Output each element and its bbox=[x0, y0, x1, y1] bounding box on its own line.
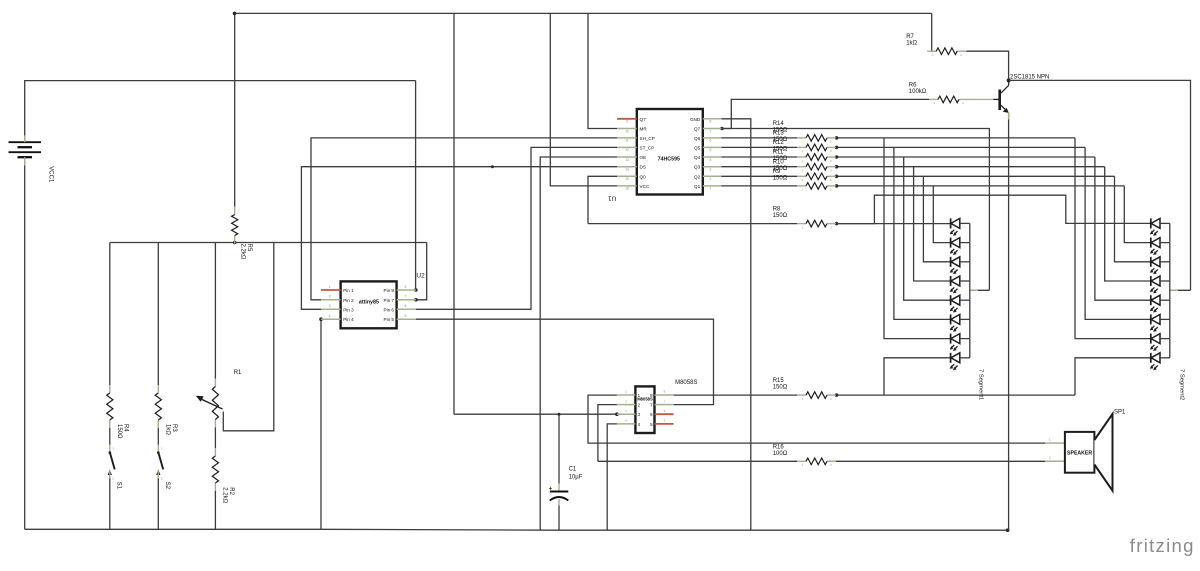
wire R15 output line bbox=[837, 394, 1076, 396]
svg-text:SP1: SP1 bbox=[1114, 410, 1126, 416]
wire collector node to 7segment2 riser bbox=[1009, 80, 1191, 290]
svg-text:Pin 2: Pin 2 bbox=[343, 298, 354, 303]
svg-text:Q5: Q5 bbox=[694, 145, 701, 150]
junction dot attiny Pin7 bbox=[414, 298, 418, 302]
wire power distribution line bbox=[110, 242, 427, 244]
wire M8058S pin8 to R15 bbox=[674, 394, 797, 396]
wire attiny Pin4 to ground rail bbox=[320, 319, 322, 529]
svg-text:8: 8 bbox=[404, 285, 406, 289]
wire Q1 drop to 7segment2 LED2 bbox=[1124, 186, 1151, 243]
svg-text:Q7’: Q7’ bbox=[640, 117, 647, 122]
svg-text:SH_CP: SH_CP bbox=[640, 136, 655, 141]
LED 8 of 7segment1 bbox=[950, 353, 970, 370]
label M8058S bbox=[675, 380, 697, 386]
wire R15 to 7segment2 LED8 bbox=[1075, 358, 1151, 395]
wire 74HC595 DS to attiny Pin3 bbox=[301, 167, 617, 310]
LED 5 of 7segment1 bbox=[950, 295, 970, 312]
svg-text:GND: GND bbox=[690, 117, 701, 122]
svg-text:+: + bbox=[549, 485, 553, 492]
wire distribution down to R3 bbox=[157, 243, 159, 386]
wire Q2 resistor output bus bbox=[837, 175, 1115, 177]
IC U2 attiny85 bbox=[321, 281, 416, 328]
wire Q6 drop to 7segment1 LED7 bbox=[884, 138, 951, 339]
svg-text:attiny85: attiny85 bbox=[359, 299, 379, 305]
label C1 bbox=[569, 466, 583, 480]
LED 3 of 7segment1 bbox=[950, 257, 970, 274]
svg-text:R4: R4 bbox=[122, 424, 128, 432]
wire attiny Pin5 to M8058S pin7 bbox=[416, 319, 714, 404]
LED 1 of 7segment1 bbox=[950, 218, 970, 235]
LED 7 of 7segment2 bbox=[1150, 334, 1170, 351]
svg-text:R3: R3 bbox=[171, 424, 177, 432]
svg-text:15: 15 bbox=[625, 177, 629, 181]
wire Q4 resistor output bus bbox=[837, 156, 1095, 158]
label U1 bbox=[608, 195, 617, 202]
svg-text:M8058S: M8058S bbox=[637, 396, 653, 401]
svg-text:150Ω: 150Ω bbox=[116, 424, 122, 439]
junction dot Q3 resistor output bbox=[835, 165, 839, 169]
wire R8 line from Q0 bbox=[588, 223, 797, 225]
label R7 bbox=[906, 34, 917, 47]
svg-text:U2: U2 bbox=[416, 273, 425, 280]
svg-text:R11: R11 bbox=[773, 150, 784, 156]
svg-text:Pin 5: Pin 5 bbox=[384, 317, 395, 322]
wire 7segment1 common tap bbox=[970, 289, 990, 291]
svg-text:□: □ bbox=[963, 321, 965, 325]
junction dot on DS wire bbox=[491, 165, 494, 168]
svg-text:1kΩ: 1kΩ bbox=[906, 41, 917, 47]
wire distribution down to R4 bbox=[109, 243, 111, 386]
wire Q7 to R6 bbox=[722, 99, 929, 128]
svg-text:74HC595: 74HC595 bbox=[658, 156, 680, 162]
svg-text:150Ω: 150Ω bbox=[773, 175, 788, 181]
svg-text:2SC1815 NPN: 2SC1815 NPN bbox=[1010, 74, 1049, 80]
junction dot Q7 output bbox=[720, 127, 724, 131]
svg-text:MR: MR bbox=[640, 127, 648, 132]
svg-text:Pin 4: Pin 4 bbox=[343, 317, 354, 322]
svg-text:2: 2 bbox=[329, 295, 331, 299]
svg-text:7: 7 bbox=[404, 295, 406, 299]
svg-text:Pin 8: Pin 8 bbox=[384, 288, 395, 293]
svg-text:Q4: Q4 bbox=[694, 155, 701, 160]
svg-text:14: 14 bbox=[625, 168, 629, 172]
svg-text:150Ω: 150Ω bbox=[773, 385, 788, 391]
LED 6 of 7segment1 bbox=[950, 314, 970, 331]
wire VCC rail down to 74HC595 MR pin bbox=[588, 13, 617, 128]
svg-text:VCC1: VCC1 bbox=[47, 166, 53, 183]
svg-text:Pin 6: Pin 6 bbox=[384, 307, 395, 312]
wire 7segment1 common bus bbox=[969, 223, 971, 357]
wire R3 to switch S2 bbox=[157, 428, 159, 445]
resistor R14 bbox=[797, 135, 836, 144]
junction dot C1 top bbox=[558, 413, 561, 416]
label R10 bbox=[773, 159, 788, 172]
label U2 bbox=[416, 273, 425, 280]
label 7 Segment2 bbox=[1179, 369, 1185, 400]
svg-text:Q2: Q2 bbox=[694, 174, 701, 179]
svg-text:SPEAKER: SPEAKER bbox=[1067, 450, 1092, 456]
wire R7 to collector node bbox=[966, 51, 1008, 80]
wire Q1 resistor output bus bbox=[837, 185, 1125, 187]
svg-text:Q6: Q6 bbox=[694, 136, 701, 141]
wire M8058S pin2 down to R16 line bbox=[598, 405, 617, 462]
LED 1 of 7segment2 bbox=[1150, 218, 1170, 235]
svg-text:R10: R10 bbox=[773, 159, 785, 165]
wire distribution down to pot wiper return bbox=[416, 243, 427, 300]
speaker SP1 bbox=[1045, 414, 1112, 491]
wire Q4 drop to 7segment1 LED5 bbox=[904, 157, 951, 300]
svg-text:□: □ bbox=[963, 360, 965, 364]
wire R16 to speaker pin2 bbox=[827, 460, 1045, 462]
wire ground rail left bbox=[25, 528, 321, 530]
label R6 bbox=[909, 82, 927, 95]
wire Q2 drop to 7segment1 LED3 bbox=[923, 176, 950, 261]
junction dot R5 bottom bbox=[233, 241, 237, 245]
svg-text:5: 5 bbox=[404, 314, 406, 318]
junction dot attiny Pin8 bbox=[414, 288, 418, 292]
svg-text:R7: R7 bbox=[906, 34, 914, 40]
wire VCC top rail bbox=[235, 12, 932, 14]
resistor R13 bbox=[797, 144, 836, 153]
switch S2 bbox=[156, 445, 163, 481]
svg-text:12: 12 bbox=[625, 148, 629, 152]
svg-text:9: 9 bbox=[626, 120, 628, 124]
svg-text:100Ω: 100Ω bbox=[773, 451, 788, 457]
transistor Q1 2SC1815 bbox=[968, 80, 1009, 119]
resistor R11 bbox=[797, 163, 836, 172]
svg-text:Q3: Q3 bbox=[694, 165, 701, 170]
junction dot Q4 resistor output bbox=[835, 155, 839, 159]
wire Q6 resistor output bus bbox=[837, 137, 1076, 139]
wire 74HC595 Q2 to resistor bbox=[722, 175, 798, 177]
svg-text:□: □ bbox=[963, 340, 965, 344]
svg-text:13: 13 bbox=[625, 158, 629, 162]
LED 5 of 7segment2 bbox=[1150, 295, 1170, 312]
label S1 bbox=[116, 482, 122, 490]
resistor R4 bbox=[107, 385, 113, 428]
svg-text:□: □ bbox=[1163, 340, 1165, 344]
svg-text:□: □ bbox=[963, 302, 965, 306]
wire 7segment2 common tap bbox=[1170, 289, 1191, 291]
wire 7segment2 common bus bbox=[1169, 223, 1171, 357]
wire R15 to 7segment1 LED8 bbox=[884, 358, 951, 395]
resistor R5 bbox=[232, 207, 238, 244]
svg-text:□: □ bbox=[1163, 321, 1165, 325]
wire junction 80-line to attiny Pin8 bbox=[415, 81, 417, 290]
svg-text:R9: R9 bbox=[773, 169, 781, 175]
svg-text:Pin 3: Pin 3 bbox=[343, 307, 354, 312]
resistor R8 bbox=[797, 220, 836, 229]
wire R8 output to LED1 of 7segment1 bbox=[837, 223, 951, 225]
wire Q3 drop to 7segment2 LED4 bbox=[1105, 167, 1151, 281]
svg-text:1kΩ: 1kΩ bbox=[164, 424, 170, 435]
junction dot Q5 resistor output bbox=[835, 146, 839, 150]
svg-text:□: □ bbox=[1163, 360, 1165, 364]
wire Q5 drop to 7segment2 LED6 bbox=[1085, 147, 1151, 319]
wire 74HC595 GND down to rail bbox=[722, 119, 751, 530]
resistor R2 bbox=[212, 448, 218, 491]
svg-text:□: □ bbox=[1163, 244, 1165, 248]
capacitor C1 bbox=[549, 484, 569, 506]
svg-text:fritzing: fritzing bbox=[1130, 535, 1195, 556]
label R3 bbox=[164, 424, 177, 435]
svg-text:R8: R8 bbox=[773, 207, 781, 213]
svg-text:4: 4 bbox=[329, 314, 331, 318]
svg-text:Q7: Q7 bbox=[694, 127, 701, 132]
label 7 Segment1 bbox=[978, 369, 984, 400]
svg-text:3: 3 bbox=[329, 304, 331, 308]
svg-text:S2: S2 bbox=[164, 482, 170, 490]
wire C1 top to 414-line bbox=[558, 414, 560, 483]
svg-text:2.2kΩ: 2.2kΩ bbox=[221, 487, 227, 503]
IC M8058S bbox=[617, 386, 674, 433]
junction dot M8058S pin3 bbox=[615, 412, 619, 416]
svg-text:R6: R6 bbox=[909, 82, 917, 88]
svg-text:VCC: VCC bbox=[640, 184, 650, 189]
resistor R7 bbox=[927, 48, 966, 57]
wire Q3 drop to 7segment1 LED4 bbox=[914, 167, 951, 281]
svg-text:7 Segment2: 7 Segment2 bbox=[1179, 369, 1185, 400]
svg-text:ST_CP: ST_CP bbox=[640, 145, 655, 150]
wire VCC rail down to 74HC595 VCC pin bbox=[550, 13, 617, 186]
svg-text:□: □ bbox=[1163, 283, 1165, 287]
svg-text:□: □ bbox=[963, 283, 965, 287]
wire Q5 resistor output bus bbox=[837, 146, 1086, 148]
svg-text:10: 10 bbox=[625, 129, 629, 133]
wire M8058S pin1 to speaker pin1 bbox=[588, 395, 1045, 443]
wire distribution down to pot R1 bbox=[214, 243, 216, 379]
LED 4 of 7segment2 bbox=[1150, 276, 1170, 293]
svg-text:R5: R5 bbox=[246, 244, 252, 252]
wire VCC rail down to R5 bbox=[234, 13, 236, 206]
svg-text:R2: R2 bbox=[228, 487, 234, 495]
resistor R15 bbox=[797, 392, 836, 401]
label R2 bbox=[221, 487, 234, 503]
svg-text:2.2kΩ: 2.2kΩ bbox=[239, 244, 245, 260]
resistor R12 bbox=[797, 154, 836, 163]
svg-text:Q1: Q1 bbox=[694, 184, 701, 189]
junction dot Q1 resistor output bbox=[835, 184, 839, 188]
wire R4 to switch S1 bbox=[109, 428, 111, 445]
label S2 bbox=[164, 482, 170, 490]
svg-text:150Ω: 150Ω bbox=[773, 213, 788, 219]
LED 6 of 7segment2 bbox=[1150, 314, 1170, 331]
wire pot wiper to riser bbox=[223, 243, 273, 431]
wire emitter down to ground rail bbox=[1008, 114, 1010, 531]
junction dot emitter at ground rail bbox=[1006, 528, 1010, 532]
junction dot top rail left end bbox=[233, 12, 237, 16]
svg-text:U1: U1 bbox=[608, 195, 617, 202]
LED 8 of 7segment2 bbox=[1150, 353, 1170, 370]
wire Q3 resistor output bus bbox=[837, 166, 1105, 168]
wire Q4 drop to 7segment2 LED5 bbox=[1095, 157, 1151, 300]
svg-text:7: 7 bbox=[710, 129, 712, 133]
label R8 bbox=[773, 207, 788, 220]
wire S1 to ground rail bbox=[109, 479, 111, 530]
wire pot R1 to R2 bbox=[214, 428, 216, 449]
svg-text:Pin 1: Pin 1 bbox=[343, 288, 354, 293]
wire R7 from VCC rail bbox=[932, 13, 937, 51]
label R4 bbox=[116, 424, 129, 439]
wire C1 bottom to ground rail bbox=[558, 506, 560, 531]
svg-text:1: 1 bbox=[329, 285, 331, 289]
svg-text:M8058S: M8058S bbox=[675, 380, 697, 386]
LED 3 of 7segment2 bbox=[1150, 257, 1170, 274]
junction dot Q6 resistor output bbox=[835, 136, 839, 140]
svg-text:4: 4 bbox=[710, 158, 712, 162]
svg-text:S1: S1 bbox=[116, 482, 122, 490]
wire M8058S pin4 to ground rail bbox=[607, 424, 617, 530]
LED 2 of 7segment1 bbox=[950, 238, 970, 255]
svg-text:6: 6 bbox=[404, 304, 406, 308]
label R11 bbox=[773, 150, 788, 163]
svg-text:16: 16 bbox=[625, 187, 629, 191]
label R12 bbox=[773, 140, 788, 153]
IC U1 74HC595 shift register bbox=[617, 109, 722, 195]
svg-text:R13: R13 bbox=[773, 130, 785, 136]
wire Q2 drop to 7segment2 LED3 bbox=[1115, 176, 1151, 261]
label R14 bbox=[773, 121, 788, 133]
svg-text:6: 6 bbox=[710, 139, 712, 143]
svg-text:7 Segment1: 7 Segment1 bbox=[978, 369, 984, 400]
svg-text:□: □ bbox=[963, 264, 965, 268]
resistor R10 bbox=[797, 173, 836, 182]
leg 7segment2 common bbox=[1170, 289, 1178, 291]
svg-text:11: 11 bbox=[625, 139, 629, 143]
svg-text:10µF: 10µF bbox=[569, 475, 583, 481]
label R13 bbox=[773, 130, 788, 143]
fritzing logo bbox=[1130, 535, 1195, 556]
svg-text:R14: R14 bbox=[773, 121, 785, 127]
svg-text:□: □ bbox=[1163, 225, 1165, 229]
label R5 bbox=[239, 244, 252, 260]
svg-text:□: □ bbox=[1163, 264, 1165, 268]
wire Q5 drop to 7segment1 LED6 bbox=[894, 147, 951, 319]
junction dot R15 output bbox=[835, 393, 839, 397]
junction dot Q2 resistor output bbox=[835, 175, 839, 179]
wire Q6 drop to 7segment2 LED7 bbox=[1075, 138, 1151, 339]
wire 74HC595 SH_CP to attiny Pin2 bbox=[311, 138, 617, 300]
svg-text:R16: R16 bbox=[773, 444, 785, 450]
wire S2 to ground rail bbox=[157, 479, 159, 530]
wire R8 branch riser to 195-line bbox=[837, 195, 1151, 223]
wire 74HC595 Q5 to resistor bbox=[722, 146, 798, 148]
resistor R16 bbox=[797, 458, 836, 467]
wire 414-line to M8058S pin3 bbox=[454, 413, 617, 415]
wire R2 to ground rail bbox=[214, 491, 216, 529]
wire battery negative down bbox=[24, 158, 26, 529]
svg-text:5: 5 bbox=[710, 148, 712, 152]
wire 74HC595 Q6 to resistor bbox=[722, 137, 798, 139]
svg-text:100kΩ: 100kΩ bbox=[909, 89, 927, 95]
svg-text:2: 2 bbox=[710, 177, 712, 181]
LED 4 of 7segment1 bbox=[950, 276, 970, 293]
wire VCC rail down to 414-line (to M8058S pin3) bbox=[453, 13, 455, 414]
label R9 bbox=[773, 169, 788, 182]
svg-text:□: □ bbox=[963, 225, 965, 229]
resistor R6 bbox=[929, 96, 968, 105]
junction dot R8 output bbox=[835, 222, 839, 226]
leg 7segment1 common bbox=[970, 289, 978, 291]
wire 74HC595 ST_CP to attiny Pin6 bbox=[416, 147, 617, 309]
label 2SC1815 NPN bbox=[1010, 74, 1049, 80]
svg-text:8: 8 bbox=[710, 120, 712, 124]
label SP1 bbox=[1114, 410, 1126, 416]
label R16 bbox=[773, 444, 788, 457]
svg-text:R12: R12 bbox=[773, 140, 785, 146]
label VCC1 bbox=[47, 166, 53, 183]
battery VCC1 bbox=[9, 136, 42, 166]
wire ground rail middle bbox=[321, 528, 559, 531]
svg-text:Pin 7: Pin 7 bbox=[384, 298, 395, 303]
resistor R3 bbox=[155, 385, 161, 428]
svg-text:3: 3 bbox=[710, 168, 712, 172]
svg-text:R1: R1 bbox=[234, 370, 242, 376]
svg-text:R15: R15 bbox=[773, 378, 785, 384]
svg-text:DS: DS bbox=[640, 165, 646, 170]
svg-text:1: 1 bbox=[710, 187, 712, 191]
potentiometer R1 bbox=[196, 379, 223, 428]
wire battery positive to top-left rail corner bbox=[25, 81, 416, 142]
wire 74HC595 Q3 to resistor bbox=[722, 166, 798, 168]
resistor R9 bbox=[797, 183, 836, 192]
wire 74HC595 Q4 to resistor bbox=[722, 156, 798, 158]
label R15 bbox=[773, 378, 788, 391]
wire ground rail right bbox=[559, 529, 1008, 531]
LED 2 of 7segment2 bbox=[1150, 238, 1170, 255]
wire R16 line bbox=[598, 460, 797, 462]
wire 74HC595 Q0 down to R8 line bbox=[588, 176, 617, 223]
svg-text:□: □ bbox=[1163, 302, 1165, 306]
svg-text:□: □ bbox=[963, 244, 965, 248]
svg-text:Q0: Q0 bbox=[640, 174, 647, 179]
label R1 bbox=[234, 370, 242, 376]
wire Q1 drop to 7segment1 LED2 bbox=[933, 186, 950, 243]
svg-text:C1: C1 bbox=[569, 466, 577, 472]
switch S1 bbox=[108, 445, 115, 481]
svg-text:OE: OE bbox=[640, 155, 647, 160]
wire 74HC595 OE to ground rail bbox=[540, 157, 617, 530]
junction dot attiny Pin4 bbox=[319, 317, 323, 321]
wire 74HC595 Q1 to resistor bbox=[722, 185, 798, 187]
junction dot collector node bbox=[1007, 78, 1011, 82]
wire Q7 line to 7segment1 riser bbox=[722, 129, 990, 291]
LED 7 of 7segment1 bbox=[950, 334, 970, 351]
